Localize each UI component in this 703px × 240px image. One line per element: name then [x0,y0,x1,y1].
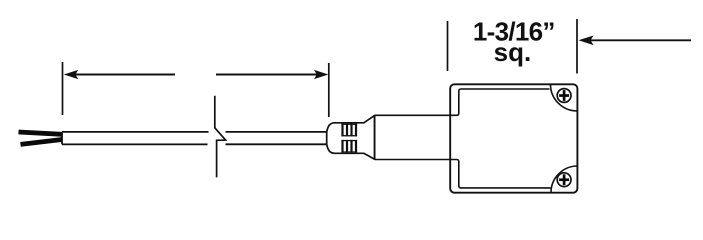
dimension: width arrow [579,36,692,46]
strain relief ribs lower row [341,140,357,153]
screw boss bottom-right [551,166,577,193]
connector housing bottom line merging into cover seam [375,160,551,188]
dimension: cable length extension line left [62,62,64,115]
cable left segment [62,132,209,144]
strain relief ribs upper row [341,124,357,137]
screw boss top-right [551,84,578,111]
dimension: cable length arrow left segment [64,70,175,79]
strain relief boot [327,115,375,159]
cable break symbol [215,96,226,178]
dimension: width extension line right [576,19,578,74]
sensor body outline [450,84,577,192]
lead wire upper [19,132,63,134]
dimension: width extension line left [447,21,449,71]
dimension: cable length arrow right segment [216,70,328,79]
connector housing top line merging into cover seam [375,89,550,115]
svg-text:sq.: sq. [494,37,532,67]
dimension: cable length extension line right [328,63,330,117]
lead wire lower [21,140,63,145]
screw S1 top-right [557,89,571,103]
cable right segment [226,132,331,144]
connector housing left edge [374,115,376,159]
screw S2 bottom-right [557,173,571,187]
